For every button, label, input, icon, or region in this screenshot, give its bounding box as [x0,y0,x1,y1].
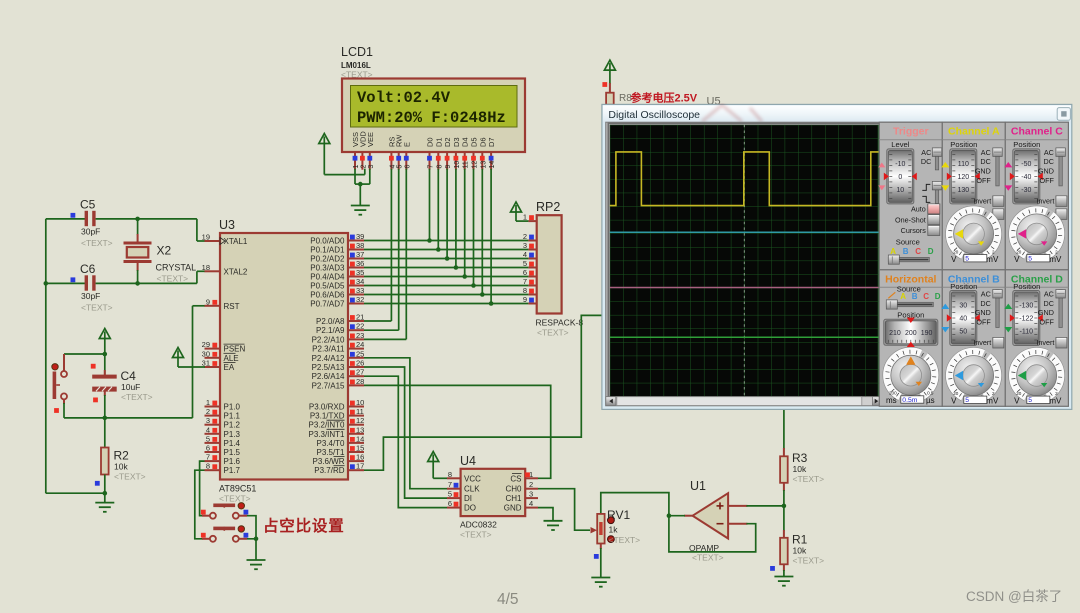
svg-text:D1: D1 [434,137,443,147]
svg-text:P1.7: P1.7 [224,466,241,475]
svg-text:Invert: Invert [1036,338,1054,347]
svg-text:5: 5 [1028,256,1032,263]
svg-text:10k: 10k [793,546,807,556]
svg-text:4: 4 [529,499,533,508]
svg-text:14: 14 [356,434,364,443]
scope panel Trigger [879,122,942,270]
wire button2 to ground [247,539,256,560]
wires U3 P2.4-P2.6 to U4 CLK DI DO [364,358,447,489]
svg-text:30: 30 [202,349,210,358]
svg-text:5: 5 [397,165,404,169]
wire left rail from C5/C6 down to R2 bottom [45,219,47,493]
svg-text:V: V [951,397,957,406]
svg-text:30pF: 30pF [81,291,100,301]
svg-text:D5: D5 [470,137,479,147]
svg-text:X2: X2 [157,244,172,258]
svg-text:ALE: ALE [224,354,239,363]
svg-text:C5: C5 [80,198,96,212]
oscilloscope window button [1057,108,1070,121]
svg-text:P2.5/A13: P2.5/A13 [312,363,345,372]
svg-text:Channel A: Channel A [948,126,1000,138]
svg-text:P2.3/A11: P2.3/A11 [312,345,345,354]
wires P0 bus to RP2 [364,240,528,242]
svg-text:0.5m: 0.5m [902,397,917,404]
svg-text:mV: mV [1049,397,1062,406]
oscilloscope screen [608,123,880,398]
svg-text:PSEN: PSEN [224,345,246,354]
svg-text:13: 13 [480,161,487,169]
svg-text:6: 6 [523,268,527,277]
oscilloscope content panel [606,122,1068,406]
svg-text:P2.0/A8: P2.0/A8 [316,317,345,326]
svg-text:P0.1/AD1: P0.1/AD1 [310,246,345,255]
svg-text:1: 1 [353,165,360,169]
svg-text:2: 2 [1055,391,1058,396]
oscilloscope window frame [602,104,1072,409]
svg-text:14: 14 [489,161,496,169]
svg-text:DI: DI [464,494,472,503]
svg-text:R1: R1 [792,533,808,547]
svg-text:P3.6/WR: P3.6/WR [312,457,344,466]
svg-text:11: 11 [356,407,364,416]
svg-text:10k: 10k [793,464,807,474]
scope horizontal scrollbar [606,397,883,406]
svg-text:RESPACK-8: RESPACK-8 [536,318,584,328]
svg-text:Invert: Invert [973,338,991,347]
svg-text:12: 12 [472,161,479,169]
svg-text:Position: Position [950,282,977,291]
svg-text:4: 4 [389,165,396,169]
svg-text:D2: D2 [443,137,452,147]
svg-text:Volt:02.4V: Volt:02.4V [357,89,451,107]
svg-text:Position: Position [1013,282,1040,291]
capacitor C5 [46,218,85,220]
svg-text:P3.2/INT0: P3.2/INT0 [308,421,345,430]
svg-text:5: 5 [206,434,210,443]
svg-text:28: 28 [356,377,364,386]
capacitor C4 10uF [104,370,106,375]
wire U4 CH0 to RV1 wiper [538,489,590,531]
svg-text:34: 34 [356,277,364,286]
svg-text:B: B [903,247,909,256]
svg-text:P2.7/A15: P2.7/A15 [312,381,345,390]
scope panel Horizontal [879,270,942,407]
svg-text:ms: ms [886,396,897,405]
ADC U4 ADC0832 [461,469,526,516]
svg-text:40: 40 [959,316,967,323]
U3 left pins XTAL1 XTAL2 RST PSEN ALE EA [205,240,221,242]
svg-text:P1.5: P1.5 [224,448,241,457]
svg-text:20: 20 [953,249,959,254]
svg-text:5: 5 [1028,397,1032,404]
wire + input to R3/R1 divider [746,505,784,507]
svg-text:D: D [935,292,941,301]
svg-text:15: 15 [356,444,364,453]
svg-text:C6: C6 [80,262,96,276]
power arrow above R8 [604,60,615,70]
svg-text:120: 120 [957,174,969,181]
scope panel Channel D [1005,270,1068,407]
svg-text:24: 24 [356,340,364,349]
svg-text:Invert: Invert [1036,196,1054,205]
reset button [63,354,65,371]
svg-text:7: 7 [206,453,210,462]
svg-text:20: 20 [1016,249,1022,254]
svg-text:6: 6 [206,444,210,453]
svg-text:P0.3/AD3: P0.3/AD3 [310,264,345,273]
svg-text:U1: U1 [690,479,706,493]
wire LCD VSS VEE to ground [354,169,356,184]
svg-text:3: 3 [206,416,210,425]
svg-text:8: 8 [206,462,210,471]
svg-text:2: 2 [523,232,527,241]
svg-text:<TEXT>: <TEXT> [114,472,146,482]
U3 P1 pins 1-8 [205,406,221,408]
wire scope output to R3 [783,410,785,450]
svg-text:CH1: CH1 [505,494,522,503]
svg-text:P1.4: P1.4 [224,439,241,448]
svg-text:7: 7 [448,480,452,489]
svg-text:GND: GND [975,308,991,317]
svg-text:4: 4 [523,250,527,259]
svg-text:P3.3/INT1: P3.3/INT1 [308,430,345,439]
svg-text:10k: 10k [114,462,128,472]
svg-text:Auto: Auto [911,205,926,214]
svg-text:µs: µs [926,396,935,405]
svg-text:P1.0: P1.0 [224,403,241,412]
power arrow above C4 [99,329,110,339]
svg-text:-50: -50 [1021,161,1031,168]
svg-text:DC: DC [980,299,990,308]
svg-text:17: 17 [356,462,364,471]
svg-text:35: 35 [356,268,364,277]
svg-text:10uF: 10uF [121,382,140,392]
svg-text:RST: RST [224,302,240,311]
svg-text:参考电压2.5V: 参考电压2.5V [631,91,698,105]
svg-text:V: V [1014,397,1020,406]
svg-text:9: 9 [523,295,527,304]
svg-text:<TEXT>: <TEXT> [81,303,113,313]
svg-text:23: 23 [356,331,364,340]
svg-text:37: 37 [356,250,364,259]
svg-text:18: 18 [202,263,210,272]
svg-text:33: 33 [356,286,364,295]
svg-text:3: 3 [368,165,375,169]
svg-text:A: A [900,292,906,301]
svg-text:P3.7/RD: P3.7/RD [314,466,344,475]
svg-text:Source: Source [896,237,920,246]
svg-text:VEE: VEE [366,132,375,147]
wire C6 to XTAL2 [196,271,198,283]
svg-text:1: 1 [206,398,210,407]
wires LCD RS RW E to U3 P2 [390,169,392,321]
svg-text:13: 13 [356,425,364,434]
svg-text:PWM:20% F:0248Hz: PWM:20% F:0248Hz [357,109,506,127]
svg-text:Digital Oscilloscope: Digital Oscilloscope [608,109,700,121]
svg-text:200: 200 [905,330,917,337]
svg-text:1k: 1k [609,525,619,535]
svg-text:-110: -110 [1020,329,1034,336]
crystal X2 [137,219,139,235]
svg-text:<TEXT>: <TEXT> [609,535,641,545]
U3 P3 pins 10-17 [348,406,364,408]
svg-text:AC: AC [1044,290,1054,299]
svg-text:GND: GND [975,167,991,176]
svg-text:30pF: 30pF [81,227,100,237]
svg-text:Invert: Invert [973,196,991,205]
svg-text:P1.2: P1.2 [224,421,241,430]
svg-text:36: 36 [356,259,364,268]
svg-text:200: 200 [889,391,897,396]
svg-text:P2.1/A9: P2.1/A9 [316,326,345,335]
svg-text:50: 50 [959,329,967,336]
svg-text:DC: DC [980,157,990,166]
capacitor C6 [46,282,85,284]
power arrow U4 VCC [428,452,439,462]
svg-text:5: 5 [448,490,452,499]
svg-text:11: 11 [463,161,470,168]
svg-text:One-Shot: One-Shot [895,215,926,224]
oscilloscope title bar [603,105,1071,123]
svg-text:C: C [923,292,929,301]
svg-text:OFF: OFF [1040,176,1055,185]
svg-text:27: 27 [356,368,364,377]
svg-text:P2.6/A14: P2.6/A14 [312,372,345,381]
svg-text:CRYSTAL: CRYSTAL [156,263,197,273]
resistor R8 top partially hidden [602,82,607,87]
wire button1 to ground node [247,516,256,539]
wire C4 to R2 [104,395,106,448]
push button 2 duty set [202,538,210,540]
svg-text:P2.2/A10: P2.2/A10 [312,335,345,344]
svg-text:P0.0/AD0: P0.0/AD0 [310,237,345,246]
svg-text:DC: DC [1044,299,1054,308]
svg-text:6: 6 [448,499,452,508]
wire C5 to XTAL1 [196,219,198,241]
svg-text:2: 2 [1055,249,1058,254]
svg-text:4/5: 4/5 [497,591,519,608]
svg-text:210: 210 [889,330,901,337]
svg-text:5: 5 [523,259,527,268]
svg-text:GND: GND [1038,308,1054,317]
scope trace channel D green [610,336,879,338]
svg-text:5: 5 [965,397,969,404]
svg-text:38: 38 [356,241,364,250]
op-amp output stub [684,515,694,517]
svg-text:AT89C51: AT89C51 [219,484,256,494]
svg-text:Channel C: Channel C [1011,126,1063,138]
svg-text:26: 26 [356,359,364,368]
svg-text:RP2: RP2 [536,200,560,214]
svg-text:-40: -40 [1021,174,1031,181]
svg-text:<TEXT>: <TEXT> [537,328,569,338]
svg-text:32: 32 [356,295,364,304]
svg-text:0.5: 0.5 [927,391,934,396]
svg-text:<TEXT>: <TEXT> [81,238,113,248]
resistor R1 10k [783,530,785,539]
ground under R2 [95,503,114,512]
svg-text:D4: D4 [461,137,470,147]
svg-text:19: 19 [202,233,210,242]
push button 1 duty set [202,515,210,517]
svg-text:P0.2/AD2: P0.2/AD2 [310,255,345,264]
svg-text:<TEXT>: <TEXT> [793,474,825,484]
svg-text:ADC0832: ADC0832 [460,520,497,530]
svg-text:22: 22 [356,322,364,331]
svg-text:P2.4/A12: P2.4/A12 [312,354,345,363]
scope graticule [610,125,879,397]
svg-text:XTAL2: XTAL2 [224,267,248,276]
svg-text:-130: -130 [1019,303,1033,310]
svg-text:20: 20 [953,391,959,396]
ground under R1 [774,577,793,586]
svg-text:25: 25 [356,349,364,358]
svg-text:P3.0/RXD: P3.0/RXD [309,403,345,412]
svg-text:CS: CS [510,474,521,483]
svg-text:U3: U3 [219,218,235,232]
scope center dashed line [743,125,745,397]
svg-text:R2: R2 [114,449,130,463]
svg-text:P1.1: P1.1 [224,412,241,421]
svg-text:E: E [402,142,411,147]
svg-text:<TEXT>: <TEXT> [219,494,251,504]
scope trace channel C pink [610,287,879,289]
svg-text:P0.6/AD6: P0.6/AD6 [310,291,345,300]
svg-text:2: 2 [206,407,210,416]
op-amp - input stub [728,523,747,525]
ground under LCD [351,206,370,215]
svg-text:AC: AC [981,148,991,157]
svg-text:3: 3 [529,490,533,499]
svg-text:B: B [912,292,918,301]
svg-text:D6: D6 [478,137,487,147]
svg-text:110: 110 [958,161,969,168]
svg-text:P1.6: P1.6 [224,457,241,466]
svg-text:P0.5/AD5: P0.5/AD5 [310,282,345,291]
svg-text:C: C [915,247,921,256]
svg-text:9: 9 [445,165,452,169]
svg-text:P0.7/AD7: P0.7/AD7 [310,300,345,309]
svg-text:EA: EA [224,363,235,372]
svg-text:GND: GND [1038,167,1054,176]
resistor R2 10k [101,448,109,475]
svg-text:29: 29 [202,340,210,349]
svg-text:<TEXT>: <TEXT> [692,553,724,563]
wire P1.6 to button1 [200,461,205,516]
potentiometer RV1 1k [597,514,604,544]
svg-text:20: 20 [1016,391,1022,396]
microcontroller U3 AT89C51 [220,233,348,480]
power arrow RP2 pin1 [511,202,522,212]
wire U3 P2.7 to U4 CS [364,385,551,478]
svg-text:0: 0 [898,174,902,181]
svg-text:2: 2 [529,480,533,489]
svg-text:XTAL1: XTAL1 [224,237,248,246]
svg-text:39: 39 [356,232,364,241]
wires LCD D0-D7 to P0 bus [429,169,431,241]
svg-text:130: 130 [957,187,969,194]
U3 P2 pins 21-28 [348,320,364,322]
svg-text:OFF: OFF [1040,317,1055,326]
wire P1.7 to button2 [195,470,205,539]
svg-text:2: 2 [992,249,995,254]
svg-text:-30: -30 [1021,187,1031,194]
svg-text:mV: mV [986,397,999,406]
svg-text:Cursors: Cursors [901,226,927,235]
svg-text:6: 6 [404,165,411,169]
svg-text:D0: D0 [426,137,435,147]
svg-text:D7: D7 [487,137,496,147]
svg-text:<TEXT>: <TEXT> [460,530,492,540]
scope panel Channel C [1005,122,1068,270]
ground under buttons [247,560,266,569]
wire button bottom to RST [64,417,193,419]
svg-text:9: 9 [206,297,210,306]
svg-text:LCD1: LCD1 [341,45,373,59]
svg-text:8: 8 [448,470,452,479]
svg-text:CLK: CLK [464,485,480,494]
svg-text:mV: mV [1049,255,1062,264]
wire opamp output to RV1 top [601,493,669,516]
svg-text:<TEXT>: <TEXT> [157,274,189,284]
svg-text:3: 3 [523,241,527,250]
power arrow for LCD VDD [319,134,330,144]
scope panel Channel B [942,270,1005,407]
svg-text:mV: mV [986,255,999,264]
feedback wire output to - input [669,516,756,552]
svg-text:P3.1/TXD: P3.1/TXD [310,412,345,421]
svg-text:10: 10 [896,187,904,194]
svg-text:10: 10 [356,398,364,407]
svg-text:Position: Position [950,140,977,149]
svg-text:占空比设置: 占空比设置 [263,516,345,535]
svg-text:OFF: OFF [976,176,991,185]
svg-text:DO: DO [464,504,476,513]
svg-text:AC: AC [1044,148,1054,157]
svg-text:190: 190 [921,330,933,337]
svg-text:4: 4 [206,425,210,434]
svg-text:OFF: OFF [976,317,991,326]
svg-text:A: A [890,247,896,256]
svg-text:R3: R3 [792,451,808,465]
scope trace channel A yellow square wave [610,152,879,206]
svg-text:5: 5 [965,256,969,263]
svg-text:GND: GND [504,504,522,513]
svg-text:RV1: RV1 [607,508,630,522]
svg-text:<TEXT>: <TEXT> [121,392,153,402]
ground under RV1 [591,578,610,587]
svg-text:V: V [1014,255,1020,264]
svg-text:2: 2 [360,165,367,169]
svg-text:P3.5/T1: P3.5/T1 [316,448,345,457]
svg-text:DC: DC [921,157,931,166]
svg-text:Position: Position [1013,140,1040,149]
svg-text:V: V [951,255,957,264]
svg-text:P3.4/T0: P3.4/T0 [316,439,345,448]
svg-text:12: 12 [356,416,364,425]
svg-text:8: 8 [436,165,443,169]
op-amp + input stub [728,505,747,507]
svg-text:30: 30 [959,303,967,310]
wire LCD VDD [364,169,366,175]
svg-text:U4: U4 [460,454,476,468]
wire reset node [64,353,105,355]
svg-text:7: 7 [523,277,527,286]
svg-text:D: D [928,247,934,256]
svg-text:VCC: VCC [464,474,481,483]
resistor R3 10k [783,448,785,457]
svg-text:CSDN @白茶了: CSDN @白茶了 [966,589,1062,604]
